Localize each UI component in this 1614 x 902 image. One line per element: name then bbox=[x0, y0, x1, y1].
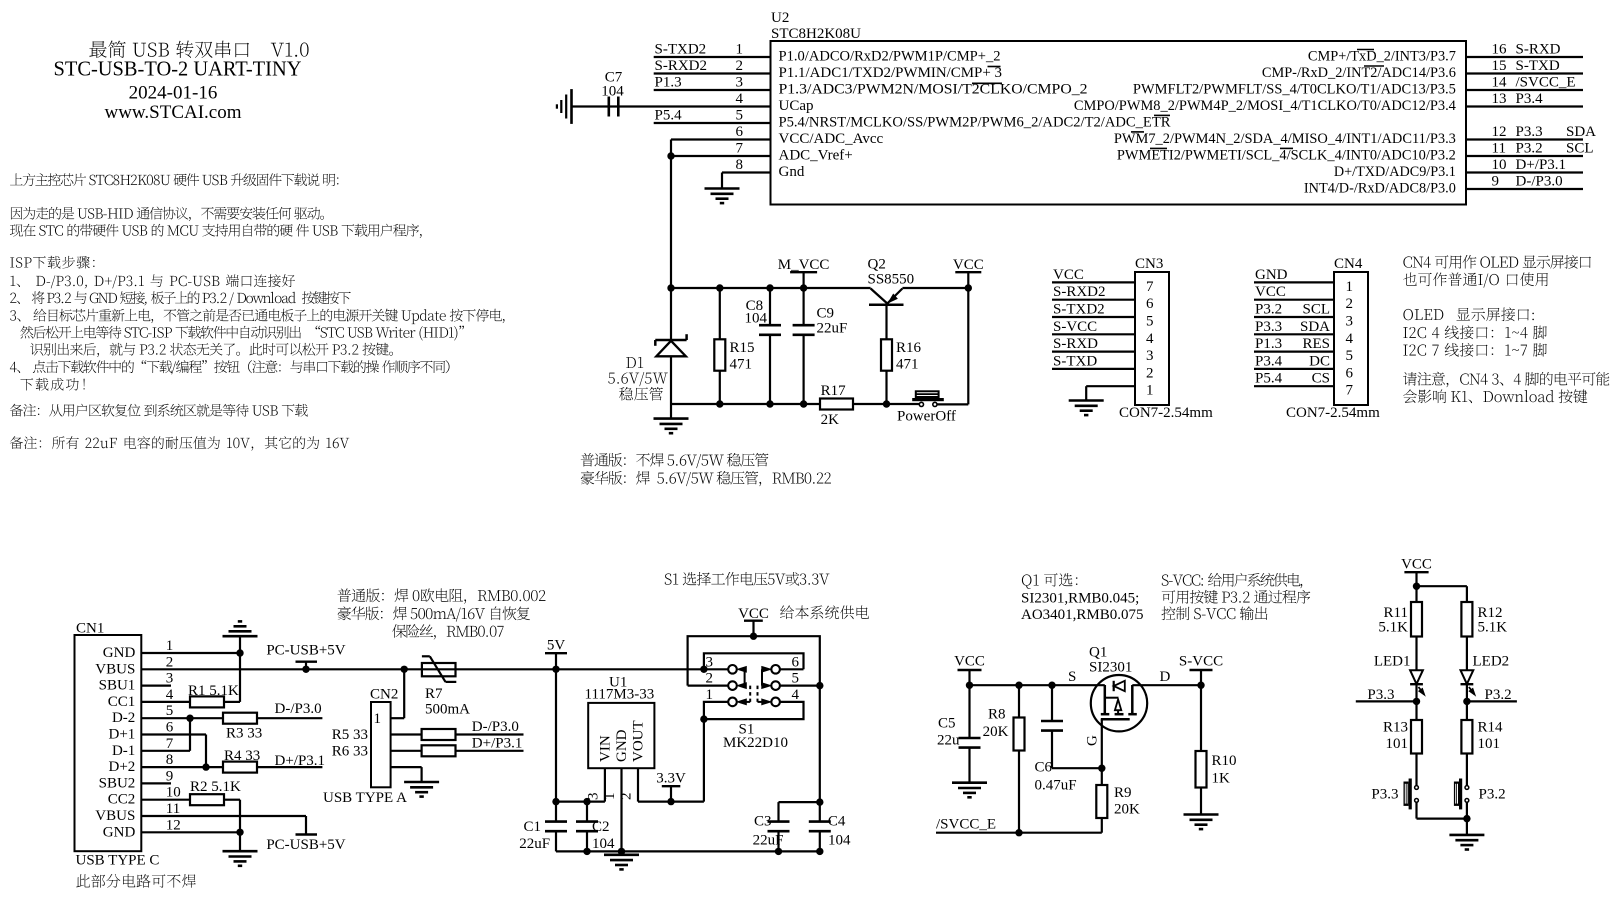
svg-text:AO3401,RMB0.075: AO3401,RMB0.075 bbox=[1021, 607, 1144, 623]
svg-text:VCC/ADC_Avcc: VCC/ADC_Avcc bbox=[779, 131, 884, 147]
svg-text:3: 3 bbox=[706, 654, 714, 670]
svg-text:P3.4: P3.4 bbox=[1516, 91, 1544, 107]
svg-text:SDA: SDA bbox=[1566, 124, 1596, 140]
svg-text:11: 11 bbox=[166, 801, 180, 817]
svg-text:CON7-2.54mm: CON7-2.54mm bbox=[1286, 405, 1380, 421]
svg-text:C6: C6 bbox=[1035, 760, 1053, 776]
svg-text:D+2: D+2 bbox=[109, 759, 136, 775]
svg-text:7: 7 bbox=[166, 736, 174, 752]
svg-text:3: 3 bbox=[736, 75, 744, 91]
svg-text:D+/TXD/ADC9/P3.1: D+/TXD/ADC9/P3.1 bbox=[1334, 164, 1456, 180]
svg-text:C1: C1 bbox=[523, 819, 541, 835]
svg-text:6: 6 bbox=[736, 124, 744, 140]
svg-text:1: 1 bbox=[166, 638, 174, 654]
svg-text:SI2301: SI2301 bbox=[1089, 660, 1132, 676]
svg-text:3: 3 bbox=[1146, 348, 1154, 364]
svg-text:ADC_Vref+: ADC_Vref+ bbox=[779, 148, 853, 164]
svg-text:1: 1 bbox=[1146, 383, 1154, 399]
svg-text:SS8550: SS8550 bbox=[868, 272, 915, 288]
svg-text:2: 2 bbox=[166, 654, 174, 670]
svg-text:9: 9 bbox=[166, 768, 174, 784]
svg-text:R5 33: R5 33 bbox=[332, 727, 368, 743]
svg-text:CN2: CN2 bbox=[370, 687, 398, 703]
svg-text:SDA: SDA bbox=[1300, 319, 1330, 335]
svg-text:5.1K: 5.1K bbox=[1378, 620, 1408, 636]
svg-text:D-1: D-1 bbox=[112, 743, 135, 759]
svg-text:22uF: 22uF bbox=[519, 836, 550, 852]
svg-text:7: 7 bbox=[1146, 279, 1154, 295]
svg-text:SI2301,RMB0.045;: SI2301,RMB0.045; bbox=[1021, 591, 1139, 607]
svg-text:2: 2 bbox=[1146, 365, 1154, 381]
svg-text:CC2: CC2 bbox=[108, 792, 136, 808]
svg-text:CS: CS bbox=[1312, 371, 1330, 387]
svg-text:500mA: 500mA bbox=[425, 701, 470, 717]
svg-text:INT4/D-/RxD/ADC8/P3.0: INT4/D-/RxD/ADC8/P3.0 bbox=[1304, 181, 1456, 197]
svg-text:8: 8 bbox=[166, 752, 174, 768]
svg-text:D-/P3.0: D-/P3.0 bbox=[472, 719, 519, 735]
svg-text:USB TYPE A: USB TYPE A bbox=[323, 790, 407, 806]
svg-text:2: 2 bbox=[619, 793, 635, 801]
svg-text:101: 101 bbox=[1386, 736, 1409, 752]
svg-text:6: 6 bbox=[792, 654, 800, 670]
svg-text:Q1: Q1 bbox=[1089, 645, 1107, 661]
svg-text:GND: GND bbox=[614, 729, 630, 762]
svg-text:Gnd: Gnd bbox=[779, 164, 805, 180]
svg-text:R9: R9 bbox=[1114, 785, 1132, 801]
svg-text:MK22D10: MK22D10 bbox=[723, 735, 788, 751]
svg-text:7: 7 bbox=[736, 141, 744, 157]
svg-text:101: 101 bbox=[1478, 736, 1501, 752]
svg-text:RES: RES bbox=[1302, 336, 1330, 352]
svg-text:S-TXD: S-TXD bbox=[1516, 58, 1560, 74]
svg-text:1: 1 bbox=[736, 42, 744, 58]
svg-text:5: 5 bbox=[1346, 348, 1354, 364]
svg-text:SCL: SCL bbox=[1302, 302, 1330, 318]
svg-text:PC-USB+5V: PC-USB+5V bbox=[266, 643, 345, 659]
svg-text:20K: 20K bbox=[983, 724, 1009, 740]
svg-text:R2 5.1K: R2 5.1K bbox=[190, 779, 241, 795]
svg-text:4: 4 bbox=[736, 91, 744, 107]
svg-text:U2: U2 bbox=[771, 10, 789, 26]
svg-text:0.47uF: 0.47uF bbox=[1035, 778, 1077, 794]
svg-text:22uF: 22uF bbox=[753, 832, 784, 848]
svg-text:SBU1: SBU1 bbox=[99, 678, 136, 694]
svg-text:3.3V: 3.3V bbox=[656, 771, 686, 787]
svg-text:22u: 22u bbox=[937, 733, 960, 749]
svg-text:STC8H2K08U: STC8H2K08U bbox=[771, 26, 861, 42]
svg-text:2K: 2K bbox=[821, 412, 840, 428]
svg-text:PWMETI2/PWMETI/SCL_4/SCLK_4/IN: PWMETI2/PWMETI/SCL_4/SCLK_4/INT0/ADC10/P… bbox=[1117, 148, 1456, 164]
svg-text:S-RXD2: S-RXD2 bbox=[655, 58, 708, 74]
svg-text:P3.2: P3.2 bbox=[1485, 687, 1512, 703]
svg-text:10: 10 bbox=[1492, 157, 1507, 173]
svg-text:P3.2: P3.2 bbox=[1479, 787, 1506, 803]
svg-text:1117M3-33: 1117M3-33 bbox=[585, 686, 655, 702]
svg-text:CMPO/PWM8_2/PWM4P_2/MOSI_4/T1C: CMPO/PWM8_2/PWM4P_2/MOSI_4/T1CLKO/T0/ADC… bbox=[1074, 98, 1456, 114]
svg-text:G: G bbox=[1085, 735, 1101, 746]
svg-text:13: 13 bbox=[1492, 91, 1507, 107]
svg-text:P1.3/ADC3/PWM2N/MOSI/T2CLKO/CM: P1.3/ADC3/PWM2N/MOSI/T2CLKO/CMPO_2 bbox=[779, 82, 1088, 98]
svg-text:P1.0/ADCO/RxD2/PWM1P/CMP+_2: P1.0/ADCO/RxD2/PWM1P/CMP+_2 bbox=[779, 49, 1001, 65]
svg-text:R13: R13 bbox=[1383, 720, 1408, 736]
svg-text:C2: C2 bbox=[592, 819, 610, 835]
svg-text:PowerOff: PowerOff bbox=[897, 409, 956, 425]
svg-text:SCL: SCL bbox=[1566, 141, 1594, 157]
svg-text:VBUS: VBUS bbox=[95, 661, 135, 677]
svg-text:12: 12 bbox=[1492, 124, 1507, 140]
svg-text:5: 5 bbox=[736, 108, 744, 124]
svg-text:R15: R15 bbox=[730, 340, 755, 356]
svg-text:S-RXD2: S-RXD2 bbox=[1053, 284, 1106, 300]
svg-text:LED1: LED1 bbox=[1374, 653, 1411, 669]
svg-text:11: 11 bbox=[1492, 141, 1506, 157]
svg-text:VCC: VCC bbox=[954, 654, 985, 670]
svg-text:Q2: Q2 bbox=[868, 257, 886, 273]
svg-text:104: 104 bbox=[601, 84, 624, 100]
svg-text:R17: R17 bbox=[821, 383, 847, 399]
svg-text:6: 6 bbox=[166, 720, 174, 736]
svg-text:1: 1 bbox=[374, 711, 382, 727]
svg-text:16: 16 bbox=[1492, 42, 1508, 58]
svg-text:CMP+/TxD_2/INT3/P3.7: CMP+/TxD_2/INT3/P3.7 bbox=[1308, 49, 1456, 65]
svg-text:S-VCC: S-VCC bbox=[1053, 319, 1097, 335]
svg-text:D-/P3.0: D-/P3.0 bbox=[1516, 174, 1563, 190]
svg-text:S-RXD: S-RXD bbox=[1516, 42, 1561, 58]
svg-text:D-/P3.0: D-/P3.0 bbox=[275, 701, 322, 717]
svg-text:C3: C3 bbox=[754, 814, 772, 830]
svg-text:GND: GND bbox=[1255, 267, 1288, 283]
svg-text:6: 6 bbox=[1346, 365, 1354, 381]
svg-text:2: 2 bbox=[1346, 296, 1354, 312]
svg-text:DC: DC bbox=[1309, 353, 1330, 369]
svg-text:R7: R7 bbox=[425, 686, 443, 702]
svg-text:5: 5 bbox=[792, 671, 800, 687]
svg-text:D-2: D-2 bbox=[112, 710, 135, 726]
svg-text:www.STCAI.com: www.STCAI.com bbox=[104, 102, 241, 123]
svg-text:R10: R10 bbox=[1212, 753, 1237, 769]
svg-text:PWM7_2/PWM4N_2/SDA_4/MISO_4/IN: PWM7_2/PWM4N_2/SDA_4/MISO_4/INT1/ADC11/P… bbox=[1114, 131, 1456, 147]
svg-text:P1.3: P1.3 bbox=[1255, 336, 1282, 352]
svg-text:2: 2 bbox=[706, 671, 714, 687]
svg-text:VCC: VCC bbox=[1255, 284, 1286, 300]
svg-text:CC1: CC1 bbox=[108, 694, 136, 710]
svg-text:P5.4: P5.4 bbox=[655, 108, 683, 124]
svg-text:S-TXD2: S-TXD2 bbox=[1053, 302, 1105, 318]
svg-text:8: 8 bbox=[736, 157, 744, 173]
svg-text:4: 4 bbox=[792, 687, 800, 703]
svg-text:2: 2 bbox=[736, 58, 744, 74]
svg-text:1: 1 bbox=[706, 687, 714, 703]
svg-text:20K: 20K bbox=[1114, 802, 1140, 818]
svg-text:5: 5 bbox=[166, 703, 174, 719]
svg-text:VCC: VCC bbox=[1401, 556, 1432, 572]
svg-text:4: 4 bbox=[166, 687, 174, 703]
svg-text:P3.4: P3.4 bbox=[1255, 353, 1283, 369]
svg-text:PWMFLT2/PWMFLT/SS_4/T0CLKO/T1/: PWMFLT2/PWMFLT/SS_4/T0CLKO/T1/ADC13/P3.5 bbox=[1133, 82, 1456, 98]
svg-text:15: 15 bbox=[1492, 58, 1507, 74]
svg-text:1: 1 bbox=[1346, 279, 1354, 295]
svg-text:CN4: CN4 bbox=[1334, 256, 1363, 272]
svg-text:VBUS: VBUS bbox=[95, 808, 135, 824]
svg-text:P3.3: P3.3 bbox=[1516, 124, 1543, 140]
svg-text:5V: 5V bbox=[547, 638, 566, 654]
svg-text:C4: C4 bbox=[828, 814, 846, 830]
svg-text:1: 1 bbox=[602, 793, 618, 801]
svg-text:12: 12 bbox=[166, 817, 181, 833]
svg-text:104: 104 bbox=[828, 832, 851, 848]
svg-text:C9: C9 bbox=[817, 306, 835, 322]
svg-text:PC-USB+5V: PC-USB+5V bbox=[266, 837, 345, 853]
svg-text:D+/P3.1: D+/P3.1 bbox=[1516, 157, 1567, 173]
svg-text:104: 104 bbox=[592, 836, 615, 852]
svg-text:SBU2: SBU2 bbox=[99, 775, 136, 791]
svg-text:9: 9 bbox=[1492, 174, 1500, 190]
svg-text:R16: R16 bbox=[896, 340, 922, 356]
svg-text:3: 3 bbox=[166, 671, 174, 687]
svg-text:14: 14 bbox=[1492, 75, 1508, 91]
svg-text:VIN: VIN bbox=[597, 735, 613, 762]
svg-text:4: 4 bbox=[1146, 331, 1154, 347]
svg-text:C5: C5 bbox=[938, 716, 956, 732]
svg-text:P3.3: P3.3 bbox=[1255, 319, 1282, 335]
svg-text:USB TYPE C: USB TYPE C bbox=[76, 852, 160, 868]
svg-text:S-TXD: S-TXD bbox=[1053, 353, 1097, 369]
svg-text:D: D bbox=[1160, 669, 1171, 685]
svg-text:GND: GND bbox=[103, 824, 136, 840]
svg-text:2024-01-16: 2024-01-16 bbox=[129, 83, 218, 104]
svg-text:P1.1/ADC1/TXD2/PWMIN/CMP+ 3: P1.1/ADC1/TXD2/PWMIN/CMP+ 3 bbox=[779, 65, 1003, 81]
svg-text:D+/P3.1: D+/P3.1 bbox=[472, 735, 523, 751]
svg-text:1K: 1K bbox=[1212, 771, 1231, 787]
svg-text:STC-USB-TO-2 UART-TINY: STC-USB-TO-2 UART-TINY bbox=[54, 57, 302, 81]
svg-text:/SVCC_E: /SVCC_E bbox=[1516, 75, 1576, 91]
svg-text:S-RXD: S-RXD bbox=[1053, 336, 1098, 352]
svg-text:P3.3: P3.3 bbox=[1367, 687, 1394, 703]
svg-text:6: 6 bbox=[1146, 296, 1154, 312]
svg-text:CMP-/RxD_2/INT2/ADC14/P3.6: CMP-/RxD_2/INT2/ADC14/P3.6 bbox=[1262, 65, 1456, 81]
svg-text:P3.2: P3.2 bbox=[1255, 302, 1282, 318]
svg-text:VOUT: VOUT bbox=[631, 720, 647, 762]
svg-text:471: 471 bbox=[896, 357, 919, 373]
svg-text:/SVCC_E: /SVCC_E bbox=[936, 817, 996, 833]
svg-text:CON7-2.54mm: CON7-2.54mm bbox=[1119, 405, 1213, 421]
svg-text:LED2: LED2 bbox=[1473, 653, 1510, 669]
svg-text:D+1: D+1 bbox=[109, 727, 136, 743]
svg-text:VCC: VCC bbox=[1053, 267, 1084, 283]
svg-text:P5.4/NRST/MCLKO/SS/PWM2P/PWM6_: P5.4/NRST/MCLKO/SS/PWM2P/PWM6_2/ADC2/T2/… bbox=[779, 115, 1171, 131]
svg-text:CN1: CN1 bbox=[76, 621, 104, 637]
svg-text:S-VCC: S-VCC bbox=[1179, 654, 1223, 670]
svg-text:P3.2: P3.2 bbox=[1516, 141, 1543, 157]
svg-text:3: 3 bbox=[1346, 314, 1354, 330]
svg-text:R3 33: R3 33 bbox=[226, 726, 262, 742]
svg-text:471: 471 bbox=[730, 357, 753, 373]
svg-text:5.1K: 5.1K bbox=[1478, 620, 1508, 636]
svg-text:P5.4: P5.4 bbox=[1255, 371, 1283, 387]
svg-text:UCap: UCap bbox=[779, 98, 814, 114]
svg-text:R6 33: R6 33 bbox=[332, 743, 368, 759]
svg-text:P3.3: P3.3 bbox=[1371, 787, 1398, 803]
svg-text:P1.3: P1.3 bbox=[655, 75, 682, 91]
svg-text:R4 33: R4 33 bbox=[224, 748, 260, 764]
svg-text:CN3: CN3 bbox=[1135, 256, 1163, 272]
svg-text:S-TXD2: S-TXD2 bbox=[655, 42, 707, 58]
svg-text:5: 5 bbox=[1146, 314, 1154, 330]
svg-text:M_VCC: M_VCC bbox=[778, 257, 830, 273]
svg-text:D+/P3.1: D+/P3.1 bbox=[275, 753, 326, 769]
svg-text:22uF: 22uF bbox=[817, 321, 848, 337]
svg-text:R8: R8 bbox=[988, 707, 1006, 723]
svg-text:R1 5.1K: R1 5.1K bbox=[188, 683, 239, 699]
svg-text:104: 104 bbox=[745, 311, 768, 327]
svg-text:4: 4 bbox=[1346, 331, 1354, 347]
svg-text:S: S bbox=[1068, 669, 1076, 685]
svg-text:10: 10 bbox=[166, 785, 181, 801]
svg-text:R14: R14 bbox=[1478, 720, 1504, 736]
svg-text:VCC: VCC bbox=[953, 257, 984, 273]
svg-text:GND: GND bbox=[103, 645, 136, 661]
svg-text:7: 7 bbox=[1346, 383, 1354, 399]
